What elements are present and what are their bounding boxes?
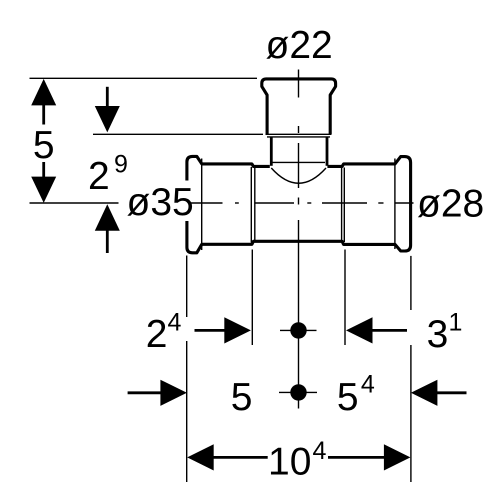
svg-text:9: 9 — [114, 151, 128, 179]
svg-text:10: 10 — [268, 441, 311, 484]
svg-text:5: 5 — [337, 376, 359, 419]
svg-text:ø22: ø22 — [266, 24, 333, 67]
svg-text:4: 4 — [168, 309, 182, 337]
svg-text:3: 3 — [427, 313, 449, 356]
svg-text:1: 1 — [449, 309, 463, 337]
svg-text:5: 5 — [231, 376, 253, 419]
svg-text:ø35: ø35 — [127, 181, 194, 224]
svg-text:4: 4 — [313, 437, 327, 465]
svg-text:2: 2 — [146, 313, 168, 356]
svg-text:5: 5 — [33, 124, 55, 167]
svg-text:ø28: ø28 — [417, 183, 484, 226]
svg-text:4: 4 — [361, 371, 375, 399]
svg-text:2: 2 — [88, 155, 110, 198]
